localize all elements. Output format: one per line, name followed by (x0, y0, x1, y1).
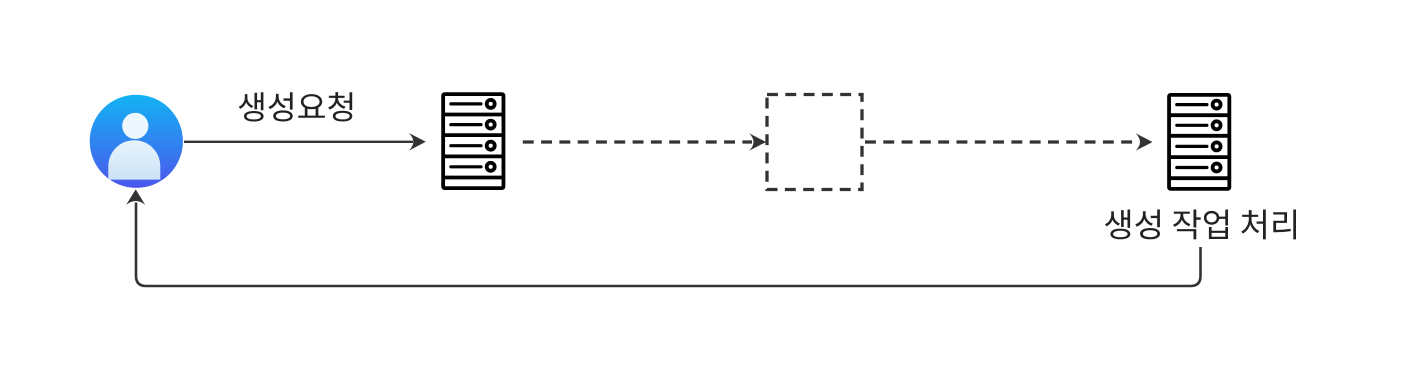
dashed wire: S1 to queue box (523, 140, 752, 143)
dashed arrow: queue box to server S2 (865, 133, 1153, 151)
dashed wire: queue box to S2 (865, 140, 1138, 143)
user actor icon (90, 95, 183, 188)
wire segments: down from S2 label, across bottom, up to user (136, 203, 1201, 287)
arrowhead at queue box (749, 133, 766, 151)
dashed arrow: S1 to queue box (523, 133, 766, 151)
return wire: S2 down, across bottom, up to user (126, 189, 1200, 286)
arrowhead at S2 (1136, 133, 1153, 151)
user shoulders/body (108, 140, 160, 179)
arrowhead at S1 (409, 133, 426, 151)
label: 생성요청 (239, 92, 353, 121)
wire: user to S1 (184, 141, 413, 143)
dashed queue box (767, 95, 862, 190)
label: 생성 작업 처리 (1105, 210, 1296, 240)
server S1 (443, 94, 503, 188)
arrowhead at user (126, 189, 145, 205)
server S2 (1169, 95, 1229, 189)
arrow: user to server S1 (184, 133, 426, 151)
user head (122, 113, 148, 139)
user avatar circle background (90, 95, 183, 188)
